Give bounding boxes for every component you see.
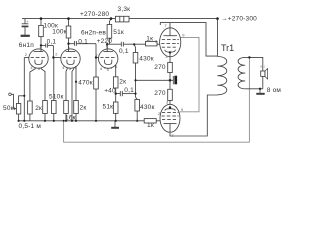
svg-text:430к: 430к (140, 104, 155, 111)
svg-text:2к: 2к (119, 78, 126, 85)
svg-text:Tr1: Tr1 (221, 43, 234, 53)
svg-text:51к: 51к (113, 29, 124, 36)
svg-text:430к: 430к (139, 55, 154, 62)
svg-text:0,1: 0,1 (124, 87, 134, 94)
svg-text:0,1: 0,1 (119, 48, 129, 55)
svg-text:→+270-300: →+270-300 (221, 16, 257, 23)
svg-text:6н2п-ев: 6н2п-ев (81, 29, 106, 36)
svg-text:1к: 1к (146, 35, 153, 42)
svg-text:510к: 510к (49, 94, 64, 101)
svg-text:6н1п: 6н1п (19, 42, 34, 49)
svg-text:1к: 1к (147, 122, 154, 129)
svg-text:470к: 470к (78, 79, 93, 86)
svg-text:270: 270 (154, 64, 166, 71)
svg-text:270: 270 (154, 90, 166, 97)
svg-text:0,1: 0,1 (47, 39, 57, 46)
svg-text:Вн1: Вн1 (260, 65, 265, 69)
svg-text:100к: 100к (52, 29, 67, 36)
svg-text:+270-280: +270-280 (80, 11, 109, 18)
svg-text:+220: +220 (97, 38, 113, 45)
svg-text:2к: 2к (80, 105, 87, 112)
svg-text:0,5-1 м: 0,5-1 м (19, 123, 42, 130)
svg-text:51к: 51к (103, 103, 114, 110)
svg-text:8 ом: 8 ом (267, 87, 282, 94)
svg-text:0,1: 0,1 (78, 39, 88, 46)
svg-text:16к: 16к (65, 115, 76, 122)
svg-text:50к: 50к (3, 105, 14, 112)
svg-text:2к: 2к (35, 105, 42, 112)
svg-text:3,3к: 3,3к (118, 6, 131, 13)
svg-text:+40: +40 (104, 88, 116, 95)
